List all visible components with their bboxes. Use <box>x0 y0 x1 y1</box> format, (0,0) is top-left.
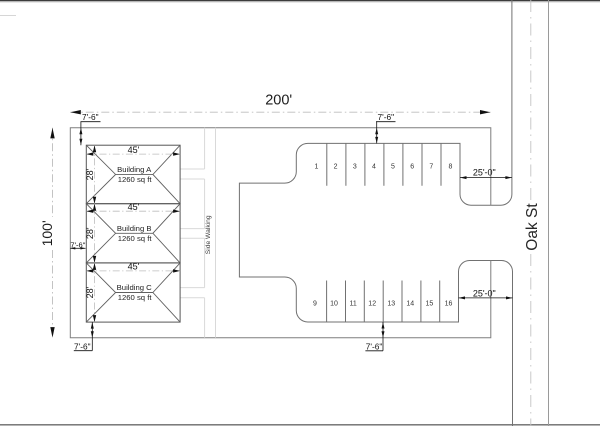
svg-text:2: 2 <box>334 163 338 170</box>
building B outline <box>86 204 180 263</box>
svg-text:11: 11 <box>349 301 356 308</box>
road right edge <box>548 0 550 426</box>
svg-text:28': 28' <box>85 168 95 180</box>
building C hip roof lines <box>86 263 180 322</box>
parking stall dividers top row <box>327 143 441 185</box>
svg-text:45': 45' <box>128 262 140 272</box>
road centerline (dashed, broken at Oak St text) <box>530 0 532 200</box>
svg-text:7'-6": 7'-6" <box>82 112 99 122</box>
svg-text:4: 4 <box>372 163 376 170</box>
svg-text:Building A: Building A <box>117 165 152 174</box>
25'-0" dimension top driveway <box>460 168 512 179</box>
building C outline <box>86 263 180 322</box>
svg-text:7'-6": 7'-6" <box>378 112 395 122</box>
svg-text:9: 9 <box>313 301 317 308</box>
svg-text:1260 sq ft: 1260 sq ft <box>118 175 153 184</box>
svg-text:7'-6": 7'-6" <box>366 342 383 352</box>
28' dimension building B <box>85 204 96 263</box>
svg-text:5: 5 <box>391 163 395 170</box>
svg-text:1260 sq ft: 1260 sq ft <box>118 293 153 302</box>
7'-6" dimension bottom-center <box>365 322 384 352</box>
top sheet border <box>0 0 600 2</box>
7'-6" dimension left-middle <box>70 241 85 250</box>
svg-text:Side Walking: Side Walking <box>205 215 212 254</box>
walkway stub building B <box>180 229 205 239</box>
svg-text:45': 45' <box>128 145 140 155</box>
svg-text:45': 45' <box>128 202 140 212</box>
side walkway left line segments <box>204 128 206 338</box>
walkway stub building A <box>180 169 205 179</box>
svg-text:12: 12 <box>368 301 376 308</box>
45' dimension building B <box>86 202 180 213</box>
svg-text:28': 28' <box>85 286 95 298</box>
28' dimension building A <box>85 145 96 204</box>
small tick top-left <box>0 14 16 16</box>
svg-text:8: 8 <box>449 163 453 170</box>
bottom sheet border <box>0 424 600 426</box>
svg-text:13: 13 <box>387 301 395 308</box>
100' dimension <box>39 128 55 338</box>
7'-6" dimension bottom-left <box>74 322 94 352</box>
site boundary <box>70 128 491 338</box>
7'-6" dimension top-left <box>79 112 100 145</box>
building A hip roof lines <box>86 145 180 204</box>
svg-text:200': 200' <box>265 93 292 109</box>
svg-text:7: 7 <box>429 163 433 170</box>
svg-text:Building C: Building C <box>117 283 152 292</box>
svg-text:Oak St: Oak St <box>524 203 541 251</box>
svg-text:7'-6": 7'-6" <box>74 342 91 352</box>
25'-0" dimension bottom driveway <box>459 288 513 299</box>
stall numbers 9-16 <box>313 301 453 308</box>
28' dimension building C <box>85 263 96 322</box>
svg-text:6: 6 <box>410 163 414 170</box>
45' dimension building A <box>86 145 180 156</box>
45' dimension building C <box>86 262 180 273</box>
7'-6" dimension top-center <box>375 112 395 143</box>
svg-text:3: 3 <box>353 163 357 170</box>
200' dimension <box>70 93 490 115</box>
svg-text:100': 100' <box>39 220 55 246</box>
svg-text:15: 15 <box>426 301 434 308</box>
road left edge + pavement outline (single continuous path with driveway tongues) <box>239 0 512 426</box>
walkway stub building C <box>180 288 205 298</box>
stall numbers 1-8 <box>315 163 453 170</box>
svg-text:25'-0": 25'-0" <box>473 168 496 178</box>
svg-text:14: 14 <box>406 301 414 308</box>
svg-text:16: 16 <box>445 301 453 308</box>
svg-text:25'-0": 25'-0" <box>473 288 496 298</box>
svg-text:1260 sq ft: 1260 sq ft <box>118 234 153 243</box>
svg-text:10: 10 <box>330 301 338 308</box>
svg-text:28': 28' <box>85 227 95 239</box>
svg-text:Building B: Building B <box>117 224 152 233</box>
building A outline <box>86 145 180 204</box>
side walkway right line <box>215 128 217 338</box>
building B hip roof lines <box>86 204 180 263</box>
parking stall dividers bottom row <box>327 281 440 323</box>
svg-text:1: 1 <box>315 163 319 170</box>
